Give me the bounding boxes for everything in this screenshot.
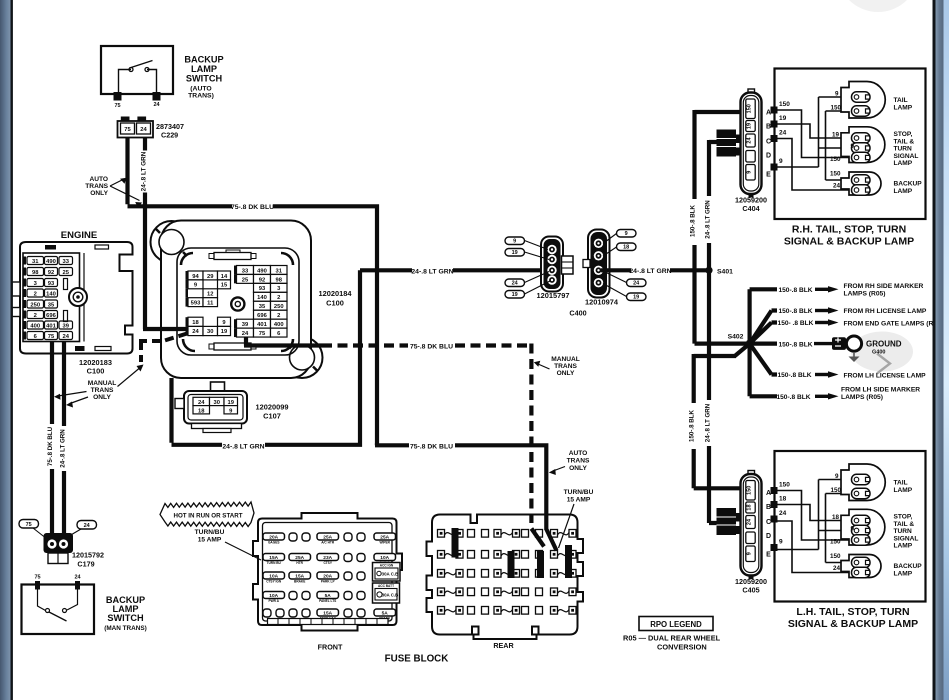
svg-text:15 AMP: 15 AMP <box>567 497 591 504</box>
svg-text:39: 39 <box>242 322 249 328</box>
svg-text:250: 250 <box>274 304 284 310</box>
svg-text:SWITCH: SWITCH <box>186 74 223 84</box>
svg-text:L.H. TAIL, STOP, TURN: L.H. TAIL, STOP, TURN <box>796 606 909 618</box>
svg-text:9: 9 <box>779 158 783 165</box>
svg-text:24: 24 <box>833 565 841 572</box>
svg-text:150-.8 BLK: 150-.8 BLK <box>690 204 697 237</box>
svg-text:HTR: HTR <box>296 561 303 565</box>
terminal labels <box>114 102 160 109</box>
leader to TURN/BU fuse (rear) <box>559 504 575 548</box>
circuit breaker ACC IGN <box>373 563 401 582</box>
svg-text:140: 140 <box>257 295 267 301</box>
svg-text:C405: C405 <box>742 586 759 595</box>
svg-text:S401: S401 <box>717 268 733 275</box>
svg-text:9: 9 <box>625 231 628 237</box>
connector C229 2873407 <box>118 117 154 138</box>
svg-text:24: 24 <box>833 183 841 190</box>
svg-text:98: 98 <box>32 270 39 276</box>
backup lamp switch (auto trans) <box>101 46 173 94</box>
leader to TURN/BU fuse (front) <box>225 542 261 560</box>
12015797 pin ovals <box>505 237 550 298</box>
svg-text:TRANS: TRANS <box>554 363 577 370</box>
wire 24-.8 LT GRN C404 to C405 <box>709 140 719 523</box>
svg-text:75-.8 DK BLU: 75-.8 DK BLU <box>410 344 453 351</box>
svg-text:9: 9 <box>850 143 854 150</box>
svg-text:24: 24 <box>242 331 249 337</box>
man switch title <box>104 595 147 632</box>
svg-text:FROM LH LICENSE LAMP: FROM LH LICENSE LAMP <box>844 372 927 379</box>
12010974 pin ovals <box>603 230 646 301</box>
svg-text:SIGNAL & BACKUP LAMP: SIGNAL & BACKUP LAMP <box>784 236 914 248</box>
svg-text:C100: C100 <box>87 367 105 376</box>
svg-text:C: C <box>766 519 771 526</box>
wire 75-.8 DK BLU to fuse block (auto trans) <box>375 443 546 530</box>
svg-text:19: 19 <box>512 292 518 298</box>
fuse note TURN/BU 15 AMP (front) <box>195 529 225 544</box>
svg-text:18: 18 <box>623 245 629 251</box>
svg-text:150: 150 <box>830 553 841 560</box>
svg-text:TAIL: TAIL <box>894 480 908 487</box>
svg-text:9: 9 <box>513 239 516 245</box>
svg-text:15 AMP: 15 AMP <box>198 537 222 544</box>
wire 75-.8 DK BLU from C229 down and right to I/P <box>128 138 380 446</box>
svg-text:PWR A: PWR A <box>268 599 279 603</box>
svg-text:12: 12 <box>207 292 213 298</box>
svg-text:93: 93 <box>48 281 55 287</box>
wire 75-.8 DK BLU (manual, dashed) into rear block <box>529 514 533 528</box>
svg-text:SIGNAL: SIGNAL <box>894 535 919 542</box>
svg-text:LAMP: LAMP <box>894 570 913 577</box>
svg-text:LAMP: LAMP <box>894 487 913 494</box>
engine connector labels <box>79 358 112 376</box>
svg-text:E: E <box>766 172 771 179</box>
wire 24-.8 LT GRN to S401 <box>601 268 709 272</box>
svg-text:30A C.B: 30A C.B <box>382 593 399 598</box>
branch to RH side marker lamps <box>750 283 924 344</box>
branch to ground G400 <box>753 336 902 362</box>
svg-text:696: 696 <box>46 313 56 319</box>
svg-text:15: 15 <box>221 283 228 289</box>
svg-text:19: 19 <box>779 115 787 122</box>
svg-text:D: D <box>766 533 771 540</box>
svg-text:29: 29 <box>207 274 214 280</box>
svg-text:14: 14 <box>221 274 228 280</box>
svg-text:33: 33 <box>63 259 70 265</box>
C405 harness bundle <box>717 508 742 535</box>
svg-text:35: 35 <box>259 304 266 310</box>
svg-text:24-.8 LT GRN: 24-.8 LT GRN <box>411 269 453 276</box>
svg-text:75: 75 <box>34 575 40 581</box>
connector C404 12059200 <box>735 89 767 213</box>
svg-text:25: 25 <box>63 270 70 276</box>
svg-text:150-.8 BLK: 150-.8 BLK <box>778 341 812 348</box>
svg-text:MANUAL: MANUAL <box>551 356 580 363</box>
svg-text:12015792: 12015792 <box>72 551 104 560</box>
svg-text:24: 24 <box>84 523 91 529</box>
svg-text:TURN/BU: TURN/BU <box>564 489 594 496</box>
svg-text:75: 75 <box>114 103 120 109</box>
note MANUAL TRANS ONLY (left) with arrows <box>54 365 144 408</box>
front block bottom strip <box>268 619 389 625</box>
connector half 12010974 (C400) <box>583 230 610 298</box>
svg-text:19: 19 <box>832 132 840 139</box>
splice S401 <box>705 267 712 274</box>
svg-text:ONLY: ONLY <box>93 394 111 401</box>
svg-text:12010974: 12010974 <box>585 298 619 307</box>
svg-text:9: 9 <box>850 526 854 533</box>
svg-text:ENGINE: ENGINE <box>61 230 97 241</box>
svg-text:33: 33 <box>242 268 249 274</box>
svg-text:TURN/BU: TURN/BU <box>195 529 225 536</box>
svg-text:HOT IN RUN OR START: HOT IN RUN OR START <box>174 513 243 520</box>
svg-text:GROUND: GROUND <box>866 339 902 348</box>
svg-text:18: 18 <box>832 514 840 521</box>
svg-text:30: 30 <box>214 400 220 406</box>
LH box title <box>788 606 918 630</box>
branch to LH license lamp <box>750 344 927 380</box>
svg-text:150: 150 <box>830 171 841 178</box>
svg-text:593: 593 <box>191 301 201 307</box>
svg-text:75-.8 DK BLU: 75-.8 DK BLU <box>410 444 453 451</box>
C404 circuit numbers <box>779 101 790 165</box>
wire 24-.8 LT GRN from I/P down through C107 path <box>172 270 413 447</box>
svg-text:GAGES: GAGES <box>268 541 280 545</box>
wire 24-.8 LT GRN engine to C179 <box>62 342 66 536</box>
svg-text:B: B <box>766 124 771 131</box>
svg-text:ONLY: ONLY <box>557 370 575 377</box>
svg-text:LAMP: LAMP <box>894 188 913 195</box>
svg-text:(MAN TRANS): (MAN TRANS) <box>104 625 147 632</box>
svg-text:LAMPS (R05): LAMPS (R05) <box>844 290 886 297</box>
connector C107 12020099 <box>175 382 247 433</box>
svg-text:24: 24 <box>779 130 787 137</box>
svg-text:9: 9 <box>779 539 783 546</box>
svg-text:FROM RH SIDE MARKER: FROM RH SIDE MARKER <box>844 283 924 290</box>
svg-text:2: 2 <box>277 295 280 301</box>
svg-text:400: 400 <box>274 322 284 328</box>
wire 24-.8 LT GRN to C400 <box>453 268 549 272</box>
svg-text:24: 24 <box>633 281 640 287</box>
svg-text:19: 19 <box>747 123 753 129</box>
svg-text:75: 75 <box>124 127 131 133</box>
I/P labels <box>319 289 353 308</box>
svg-text:ACC IGN: ACC IGN <box>380 564 394 568</box>
I/P lower-left cavity grid <box>186 317 231 335</box>
C107 labels <box>256 403 289 421</box>
svg-text:150-.8 BLK: 150-.8 BLK <box>777 372 811 379</box>
svg-text:150-.8 BLK: 150-.8 BLK <box>778 308 812 315</box>
svg-text:24: 24 <box>63 334 70 340</box>
svg-text:24: 24 <box>512 281 519 287</box>
svg-text:TURN: TURN <box>894 528 913 535</box>
C405 circuit numbers <box>779 482 790 546</box>
svg-text:R.H. TAIL, STOP, TURN: R.H. TAIL, STOP, TURN <box>792 224 906 236</box>
svg-text:ONLY: ONLY <box>569 465 587 472</box>
svg-text:TAIL &: TAIL & <box>894 138 915 145</box>
svg-text:18: 18 <box>198 408 205 414</box>
svg-text:WIPER: WIPER <box>379 541 390 545</box>
svg-text:BRAKE: BRAKE <box>294 580 305 584</box>
svg-text:18: 18 <box>779 496 787 503</box>
circuit breaker ACC BATT <box>373 583 400 603</box>
svg-text:CTSY IGN: CTSY IGN <box>266 580 282 584</box>
C404 pin letters <box>766 110 771 179</box>
RH box title <box>784 224 914 248</box>
svg-text:150-.8 BLK: 150-.8 BLK <box>689 409 696 442</box>
svg-text:150: 150 <box>779 482 790 489</box>
svg-text:35: 35 <box>48 302 55 308</box>
svg-text:30A C.B: 30A C.B <box>382 572 399 577</box>
wire 75-.8 DK BLU (auto) into rear block <box>546 514 556 551</box>
svg-text:75-.8 DK BLU: 75-.8 DK BLU <box>231 204 274 211</box>
svg-text:STOP,: STOP, <box>894 131 913 138</box>
svg-text:RPO LEGEND: RPO LEGEND <box>650 620 702 629</box>
svg-text:BACKUP: BACKUP <box>894 181 923 188</box>
svg-text:150- .8 BLK: 150- .8 BLK <box>778 320 814 327</box>
svg-text:9: 9 <box>747 552 753 555</box>
note MANUAL TRANS ONLY (middle) <box>534 356 580 377</box>
svg-text:TAIL &: TAIL & <box>894 521 915 528</box>
svg-text:FRONT: FRONT <box>318 643 343 652</box>
wire 24-.8 LT GRN from C229 down to I/P lower grid <box>143 138 147 330</box>
svg-text:LAMP: LAMP <box>894 160 913 167</box>
svg-text:250: 250 <box>30 302 40 308</box>
svg-text:75: 75 <box>48 334 55 340</box>
svg-text:75: 75 <box>26 522 32 528</box>
splice S402 <box>746 340 754 348</box>
svg-text:24: 24 <box>747 137 753 144</box>
rear fuse rows <box>438 530 577 615</box>
svg-text:MANUAL: MANUAL <box>88 380 117 387</box>
svg-text:98: 98 <box>276 277 283 283</box>
svg-text:9: 9 <box>835 91 839 98</box>
svg-text:TAIL: TAIL <box>894 97 908 104</box>
svg-text:LAMP: LAMP <box>894 543 913 550</box>
svg-text:401: 401 <box>257 322 267 328</box>
svg-text:C400: C400 <box>569 309 586 318</box>
svg-text:BACKUP: BACKUP <box>184 55 223 65</box>
svg-text:STOP,: STOP, <box>894 514 913 521</box>
svg-text:9: 9 <box>835 473 839 480</box>
svg-text:93: 93 <box>259 286 266 292</box>
svg-text:24: 24 <box>747 518 753 525</box>
svg-text:490: 490 <box>257 268 267 274</box>
svg-text:150-.8 BLK: 150-.8 BLK <box>776 394 810 401</box>
svg-text:150: 150 <box>830 539 841 546</box>
svg-text:401: 401 <box>46 323 56 329</box>
dashed wire stub (manual trans) at I/P lower-left <box>139 334 187 363</box>
svg-text:150: 150 <box>747 104 753 113</box>
I/P right cavity grid <box>234 266 287 338</box>
wire 150-.8 BLK S402 to C405 <box>694 344 750 489</box>
C229 labels <box>156 122 184 140</box>
svg-text:24: 24 <box>153 102 160 108</box>
svg-text:D: D <box>766 153 771 160</box>
svg-text:31: 31 <box>32 259 39 265</box>
switch title text <box>184 55 223 100</box>
svg-text:24-.8 LT GRN: 24-.8 LT GRN <box>629 268 671 275</box>
svg-text:TRANS): TRANS) <box>188 93 214 100</box>
svg-text:C229: C229 <box>161 131 178 140</box>
engine connector cavity grid <box>24 257 88 340</box>
svg-text:150: 150 <box>830 487 841 494</box>
svg-text:R05 — DUAL REAR WHEEL: R05 — DUAL REAR WHEEL <box>623 634 721 643</box>
svg-text:12020184: 12020184 <box>319 289 353 298</box>
svg-text:92: 92 <box>48 270 54 276</box>
svg-text:30: 30 <box>207 329 213 335</box>
svg-text:19: 19 <box>633 295 639 301</box>
wire 75-.8 DK BLU engine to C179 <box>50 342 54 536</box>
RPO legend <box>623 617 721 652</box>
wire 150-.8 BLK C404 to S402 <box>695 110 747 344</box>
svg-text:A: A <box>766 110 771 117</box>
svg-text:E: E <box>766 552 771 559</box>
switch terminal 75 <box>114 92 122 101</box>
svg-text:9: 9 <box>747 171 753 174</box>
svg-text:SWITCH: SWITCH <box>107 613 144 623</box>
svg-text:39: 39 <box>63 323 70 329</box>
svg-text:FROM LH SIDE MARKER: FROM LH SIDE MARKER <box>841 386 920 393</box>
connector C405 12059200 <box>735 471 767 595</box>
C405 pin letters <box>766 490 771 559</box>
C404 harness bundle <box>717 130 742 157</box>
svg-text:24: 24 <box>74 575 81 581</box>
connector half 12015797 (C400) <box>541 237 573 292</box>
svg-text:B: B <box>766 504 771 511</box>
svg-text:CTSY: CTSY <box>323 561 332 565</box>
svg-text:490: 490 <box>46 259 56 265</box>
svg-text:TRANS: TRANS <box>567 458 590 465</box>
svg-text:AUTO: AUTO <box>89 176 108 183</box>
engine bulkhead connector 12020183 C100 <box>12 242 133 354</box>
svg-text:PANEL LTS: PANEL LTS <box>319 599 336 603</box>
svg-text:PARK LP: PARK LP <box>321 580 336 584</box>
svg-text:12020099: 12020099 <box>256 403 289 412</box>
wire 24-.8 LT GRN into I/P cavity 24 <box>143 327 188 331</box>
svg-text:SIGNAL: SIGNAL <box>894 153 919 160</box>
svg-text:150: 150 <box>747 486 753 495</box>
I/P upper-left cavity grid <box>186 271 231 307</box>
svg-text:25: 25 <box>242 277 249 283</box>
switch terminal 24 <box>153 92 161 101</box>
svg-text:C404: C404 <box>742 204 759 213</box>
front fuse rows <box>263 533 396 621</box>
svg-text:LAMP: LAMP <box>191 64 217 74</box>
svg-text:18: 18 <box>747 504 753 510</box>
svg-text:400: 400 <box>30 323 40 329</box>
svg-text:2: 2 <box>277 313 280 319</box>
hot in run or start banner <box>160 502 254 527</box>
svg-text:75-.8 DK BLU: 75-.8 DK BLU <box>47 426 54 466</box>
svg-text:A/C HTR: A/C HTR <box>321 541 335 545</box>
svg-text:150: 150 <box>830 156 841 163</box>
wire 75-.8 DK BLU I/P to rear fuse block (dashed manual trans) <box>244 338 322 346</box>
svg-text:A: A <box>766 490 771 497</box>
svg-text:REAR: REAR <box>493 641 514 650</box>
svg-text:S402: S402 <box>728 334 744 341</box>
svg-text:G400: G400 <box>872 350 885 356</box>
svg-text:ONLY: ONLY <box>90 190 108 197</box>
svg-text:24-.8 LT GRN: 24-.8 LT GRN <box>705 200 712 239</box>
svg-text:94: 94 <box>192 274 199 280</box>
L.H. tail/stop/backup lamp assembly box <box>775 451 926 602</box>
svg-text:C100: C100 <box>326 299 344 308</box>
svg-text:LAMPS (R05): LAMPS (R05) <box>841 394 883 401</box>
svg-text:19: 19 <box>512 250 518 256</box>
svg-text:18: 18 <box>192 320 199 326</box>
svg-text:CONVERSION: CONVERSION <box>657 643 707 652</box>
note AUTO TRANS ONLY (upper) with arrows <box>85 176 142 208</box>
svg-text:24-.8 LT GRN: 24-.8 LT GRN <box>222 444 264 451</box>
svg-text:AUTO: AUTO <box>569 450 588 457</box>
branch to RH license lamp <box>750 307 927 343</box>
svg-text:TURN: TURN <box>894 146 913 153</box>
fuse block FRONT view <box>253 513 402 631</box>
svg-text:24: 24 <box>779 510 787 517</box>
svg-text:FROM RH LICENSE LAMP: FROM RH LICENSE LAMP <box>844 308 927 315</box>
svg-text:31: 31 <box>276 268 283 274</box>
svg-text:C: C <box>766 139 771 146</box>
svg-text:24: 24 <box>192 329 199 335</box>
backup lamp switch (man trans) <box>22 575 95 635</box>
svg-text:696: 696 <box>257 313 267 319</box>
svg-text:BACKUP: BACKUP <box>894 563 923 570</box>
R.H. tail/stop/backup lamp assembly box <box>775 69 926 220</box>
svg-text:SIGNAL & BACKUP LAMP: SIGNAL & BACKUP LAMP <box>788 618 918 630</box>
svg-text:C107: C107 <box>263 412 281 421</box>
svg-text:2: 2 <box>34 313 37 319</box>
branch to end gate lamps <box>750 319 941 343</box>
svg-text:LAMP: LAMP <box>894 104 913 111</box>
fuse note TURN/BU 15 AMP (rear) <box>564 489 594 504</box>
connector C179 12015792 <box>19 520 97 564</box>
svg-text:75: 75 <box>259 331 266 337</box>
svg-text:TRANS: TRANS <box>91 387 114 394</box>
svg-text:FROM END GATE LAMPS (R05: FROM END GATE LAMPS (R05 <box>844 321 942 328</box>
C179 labels <box>72 551 104 569</box>
svg-text:C179: C179 <box>77 560 94 569</box>
svg-text:150-.8 BLK: 150-.8 BLK <box>778 287 812 294</box>
svg-text:(AUTO: (AUTO <box>190 86 211 93</box>
svg-text:19: 19 <box>221 329 228 335</box>
svg-text:24-.8 LT GRN: 24-.8 LT GRN <box>705 403 712 442</box>
svg-text:ACC BATT: ACC BATT <box>378 584 394 588</box>
svg-text:92: 92 <box>259 277 265 283</box>
branch to LH side marker lamps <box>750 344 921 401</box>
svg-text:24-.8 LT GRN: 24-.8 LT GRN <box>141 151 148 191</box>
svg-text:12015797: 12015797 <box>537 291 570 300</box>
svg-text:11: 11 <box>207 301 214 307</box>
svg-text:150: 150 <box>779 101 790 108</box>
svg-text:2: 2 <box>34 291 37 297</box>
note AUTO TRANS ONLY (lower right) <box>549 450 590 475</box>
svg-text:TRANS: TRANS <box>85 183 108 190</box>
C404 pin squares <box>771 107 778 171</box>
C405 pin squares <box>771 487 778 551</box>
svg-text:24-.8 LT GRN: 24-.8 LT GRN <box>60 429 67 468</box>
svg-text:TURN BU: TURN BU <box>267 561 282 565</box>
rear jumper bars <box>452 528 573 578</box>
svg-text:150: 150 <box>830 105 841 112</box>
svg-text:24: 24 <box>140 127 147 133</box>
svg-text:FUSE BLOCK: FUSE BLOCK <box>385 654 449 665</box>
svg-text:140: 140 <box>46 291 56 297</box>
fuse block REAR view <box>427 515 584 640</box>
